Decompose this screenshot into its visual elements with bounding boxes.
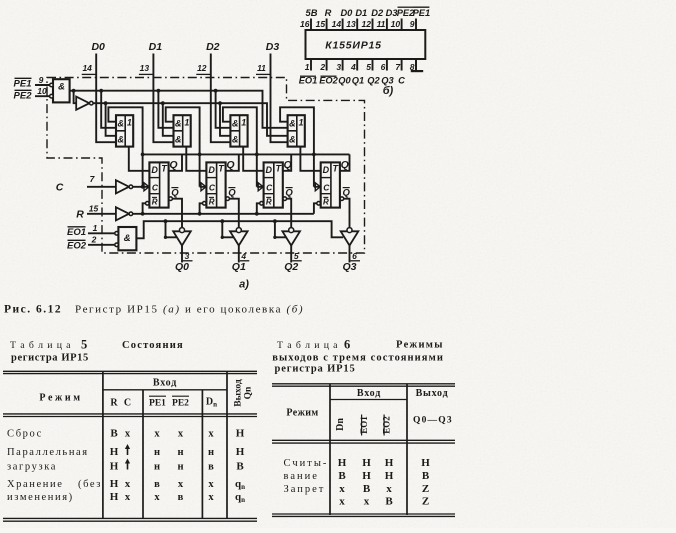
pin 15 (R) stub [326,19,328,31]
pin C dynamic-input wedge stage 1 [144,183,149,191]
wire output Q3 [349,246,351,263]
wire bottom bus drop stage 1 [106,103,116,136]
pin 8 stub [415,59,417,71]
wire top bus drop stage 3 [216,91,231,128]
node load-enable junction [72,89,76,93]
pin C dynamic-input wedge stage 2 [201,183,206,191]
wire R input [87,213,116,215]
pin Q-bar inverting bubble stage 4 [340,197,344,201]
wire D1 input [153,54,173,143]
inverter (load path) [76,97,89,110]
wire D2 input [211,54,231,143]
wire D3 input [271,54,288,143]
three-state buffer Q3 [341,231,359,245]
wire PE1 input [35,84,52,86]
wire top bus drop stage 2 [158,91,173,128]
wire Q-bar to buffer stage 2 [230,199,239,228]
node bottom bus tap stage 3 [218,101,222,105]
pin 14 (D0) stub [342,19,344,31]
wire R tap stage 4 [314,203,317,214]
node top bus tap stage 2 [157,89,161,93]
node enable tap stage 2 [220,219,224,223]
wire EO2 input [88,244,117,246]
D flip-flop stage 2 [206,162,225,207]
wire Q-bar to buffer stage 4 [344,199,350,228]
wire R bus [133,213,314,215]
wire selector output to D stage 4 [300,147,320,171]
D flip-flop stage 4 [321,162,340,207]
wire R tap stage 3 [255,212,259,216]
node bottom bus tap stage 2 [161,101,165,105]
AND gate (EO output enable) [118,227,136,250]
inverter (reset) [116,207,129,220]
pin R inverting bubble stage 1 [146,202,150,206]
and-or selector stage 1 [116,115,133,146]
pin 4 stub [356,59,358,71]
three-state buffer Q0 [173,231,191,245]
wire PE gate output [70,90,74,92]
wire enable drop stage 3 [275,221,287,237]
node bottom bus tap stage 1 [104,101,108,105]
wire bottom bus drop stage 3 [220,103,230,136]
wire clock to FF1 [133,186,150,188]
wire selector output to D stage 3 [243,147,263,171]
pin 2 stub [326,59,328,71]
pin 3 stub [342,59,344,71]
pin Q-bar inverting bubble stage 2 [226,197,230,201]
wire bottom bus (load enable) [93,103,288,136]
inverter (clock) [116,180,129,193]
wire Q output loop stage 3 [283,154,291,170]
pin 12 (D2) stub [372,19,374,31]
IC boundary (dash-dot) [47,78,365,254]
AND gate (PE load enable) [53,79,70,102]
node clock junction [141,185,145,189]
wire enable drop stage 1 [166,221,178,237]
wire feedback wrap stage 3 [223,107,257,187]
wire clock entry stage 3 [257,186,264,188]
three-state buffer Q1 [230,231,248,245]
wire D0 input [96,54,116,143]
node crossbar junction stage 4 [312,153,316,157]
wire Q output loop stage 2 [226,154,239,170]
D flip-flop stage 3 [264,162,283,207]
and-or selector stage 3 [230,115,247,146]
wire Q-bar to buffer stage 3 [287,199,291,228]
pin 7 stub [401,59,403,71]
node enable tap stage 1 [164,219,168,223]
pin 9 (PE1) stub [415,19,417,31]
pin 16 (5В) stub [310,19,312,31]
wire selector output to D stage 1 [129,147,150,171]
table 5 grid [3,370,257,372]
wire PE2 input [35,95,52,97]
wire to load inverter [74,91,77,104]
node enable tap stage 3 [273,219,277,223]
wire C input [87,186,116,188]
ground (pin 8) [415,59,417,71]
node top bus tap stage 3 [214,89,218,93]
wire EO1 input [88,232,117,234]
pin Q-bar inverting bubble stage 3 [283,197,287,201]
wire R tap stage 1 [141,212,145,216]
wire bottom bus drop stage 2 [163,103,174,136]
pin R inverting bubble stage 4 [317,202,321,206]
pin C dynamic-input wedge stage 3 [258,183,263,191]
node crossbar junction stage 2 [198,153,202,157]
pin 11 (D3) stub [386,19,388,31]
pin 6 stub [386,59,388,71]
pin R inverting bubble stage 3 [260,202,264,206]
pin 10 (PE2) stub [401,19,403,31]
wire top bus (hold enable) [74,91,288,128]
wire output Q2 [290,246,292,263]
wire top bus drop stage 1 [101,91,116,128]
pin 5 stub [372,59,374,71]
IC body U1 K155IR15 (pinout) [306,30,426,59]
pin 13 (D1) stub [356,19,358,31]
pin 1 stub [310,59,312,71]
wire R tap stage 2 [198,212,202,216]
node top bus tap stage 1 [99,89,103,93]
pin C dynamic-input wedge stage 4 [315,183,320,191]
pin Q-bar inverting bubble stage 1 [169,197,173,201]
wire output Q1 [238,246,240,263]
wire clock/feedback crossbar [143,153,350,155]
wire Q output loop stage 4 [340,154,350,170]
and-or selector stage 4 [288,115,305,146]
wire clock entry stage 2 [200,186,207,188]
wire clock entry stage 4 [314,186,321,188]
pin R inverting bubble stage 2 [203,202,207,206]
node crossbar junction stage 1 [141,153,145,157]
wire enable bus [136,221,343,238]
wire output Q0 [181,246,183,263]
wire feedback wrap stage 4 [280,107,314,187]
node crossbar junction stage 3 [255,153,259,157]
three-state buffer Q2 [282,231,300,245]
D flip-flop stage 1 [149,162,168,207]
wire selector output to D stage 2 [186,147,206,171]
table 6 grid [272,383,455,385]
wire Q output loop stage 1 [169,154,182,170]
and-or selector stage 2 [174,115,191,146]
wire feedback wrap stage 1 [108,107,142,187]
wire Q-bar to buffer stage 1 [173,199,182,228]
wire enable drop stage 2 [222,221,234,237]
wire feedback wrap stage 2 [166,107,200,187]
